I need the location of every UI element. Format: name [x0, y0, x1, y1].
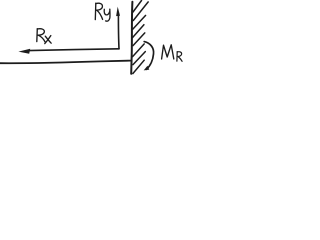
label Ry : letter y [104, 9, 109, 15]
wall (fixed support line) [131, 2, 132, 74]
label M_R : subscript R [176, 52, 178, 62]
wall hatch 6 [133, 44, 145, 57]
wall hatch 7 [133, 52, 145, 65]
label M_R : letter M [162, 45, 174, 59]
moment arrowhead [144, 66, 150, 71]
label Rx : letter R [36, 29, 39, 42]
label Ry : letter R [94, 3, 97, 19]
wall hatch 8 [133, 60, 144, 73]
wall hatch 1 [133, 1, 142, 13]
wall hatch 2 [133, 2, 148, 21]
Ry arrow shaft [117, 15, 120, 49]
moment arc M_R [144, 42, 153, 70]
Rx arrow shaft [29, 49, 120, 51]
wall hatch 4 [133, 25, 144, 38]
label Rx : letter x [45, 36, 51, 43]
Rx arrowhead [18, 49, 30, 54]
wall hatch 5 [133, 33, 145, 46]
Ry arrowhead [116, 7, 120, 17]
beam (horizontal member) [0, 61, 131, 64]
wall hatch 3 [133, 15, 146, 29]
